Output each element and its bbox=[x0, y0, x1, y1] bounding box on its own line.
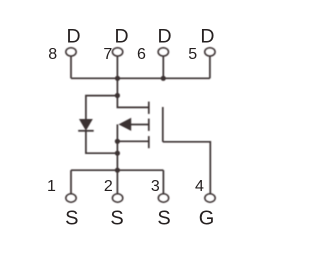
junction dot diode anode tee bbox=[115, 93, 120, 98]
svg-text:D: D bbox=[114, 26, 128, 48]
svg-text:S: S bbox=[157, 208, 170, 230]
junction dot source bus-pin2 bbox=[115, 168, 120, 173]
MOSFET Q1 substrate arrow bbox=[119, 118, 132, 131]
MOSFET Q1 gate electrode bbox=[162, 107, 164, 142]
svg-text:3: 3 bbox=[151, 178, 160, 195]
MOSFET Q1 source channel bar bbox=[148, 136, 150, 148]
MOSFET Q1 drain channel bar bbox=[148, 102, 150, 114]
svg-text:D: D bbox=[158, 26, 172, 48]
junction dot diode cathode tee bbox=[115, 151, 120, 156]
svg-text:8: 8 bbox=[48, 46, 57, 63]
svg-text:7: 7 bbox=[103, 46, 112, 63]
junction dot bus-pin6 bbox=[161, 76, 166, 81]
svg-text:D: D bbox=[200, 26, 214, 48]
junction dot bus-pin7 bbox=[115, 76, 120, 81]
wire body connection bbox=[131, 124, 149, 126]
pin 5 terminal circle bbox=[205, 48, 215, 56]
pin 3 terminal circle bbox=[158, 194, 168, 202]
svg-text:G: G bbox=[199, 208, 215, 230]
MOSFET Q1 middle channel bar bbox=[148, 119, 150, 131]
pin 1 terminal circle bbox=[66, 194, 76, 202]
wire pin7 stub bbox=[116, 56, 118, 78]
pin 8 terminal circle bbox=[66, 48, 76, 56]
wire pin1 stub bbox=[70, 170, 72, 194]
svg-text:S: S bbox=[110, 208, 123, 230]
svg-text:6: 6 bbox=[137, 46, 146, 63]
wire pin8 stub bbox=[70, 56, 72, 78]
wire source to channel bbox=[117, 140, 148, 142]
pin 7 terminal circle bbox=[112, 48, 122, 56]
wire source bus bbox=[71, 169, 163, 171]
wire diode branch top bbox=[86, 96, 118, 119]
svg-text:5: 5 bbox=[188, 46, 197, 63]
svg-text:4: 4 bbox=[195, 178, 204, 195]
wire source vertical to pin2 bbox=[116, 124, 118, 193]
svg-text:2: 2 bbox=[104, 178, 113, 195]
svg-text:S: S bbox=[65, 208, 78, 230]
pin 6 terminal circle bbox=[158, 48, 168, 56]
wire drain bus bbox=[71, 77, 210, 79]
wire diode branch bottom bbox=[86, 131, 118, 153]
svg-text:1: 1 bbox=[47, 178, 56, 195]
diode D1 body diode triangle bbox=[79, 119, 93, 131]
diode D1 cathode bar bbox=[78, 130, 94, 132]
junction dot source-channel tee bbox=[115, 139, 120, 144]
wire pin3 stub bbox=[162, 170, 164, 194]
svg-text:D: D bbox=[66, 26, 80, 48]
pin 4 terminal circle bbox=[205, 194, 215, 202]
wire pin6 stub bbox=[162, 56, 164, 78]
wire drain down to channel bbox=[117, 78, 148, 107]
wire pin5 stub bbox=[209, 56, 211, 78]
pin 2 terminal circle bbox=[112, 194, 122, 202]
wire gate to pin4 bbox=[163, 142, 211, 194]
